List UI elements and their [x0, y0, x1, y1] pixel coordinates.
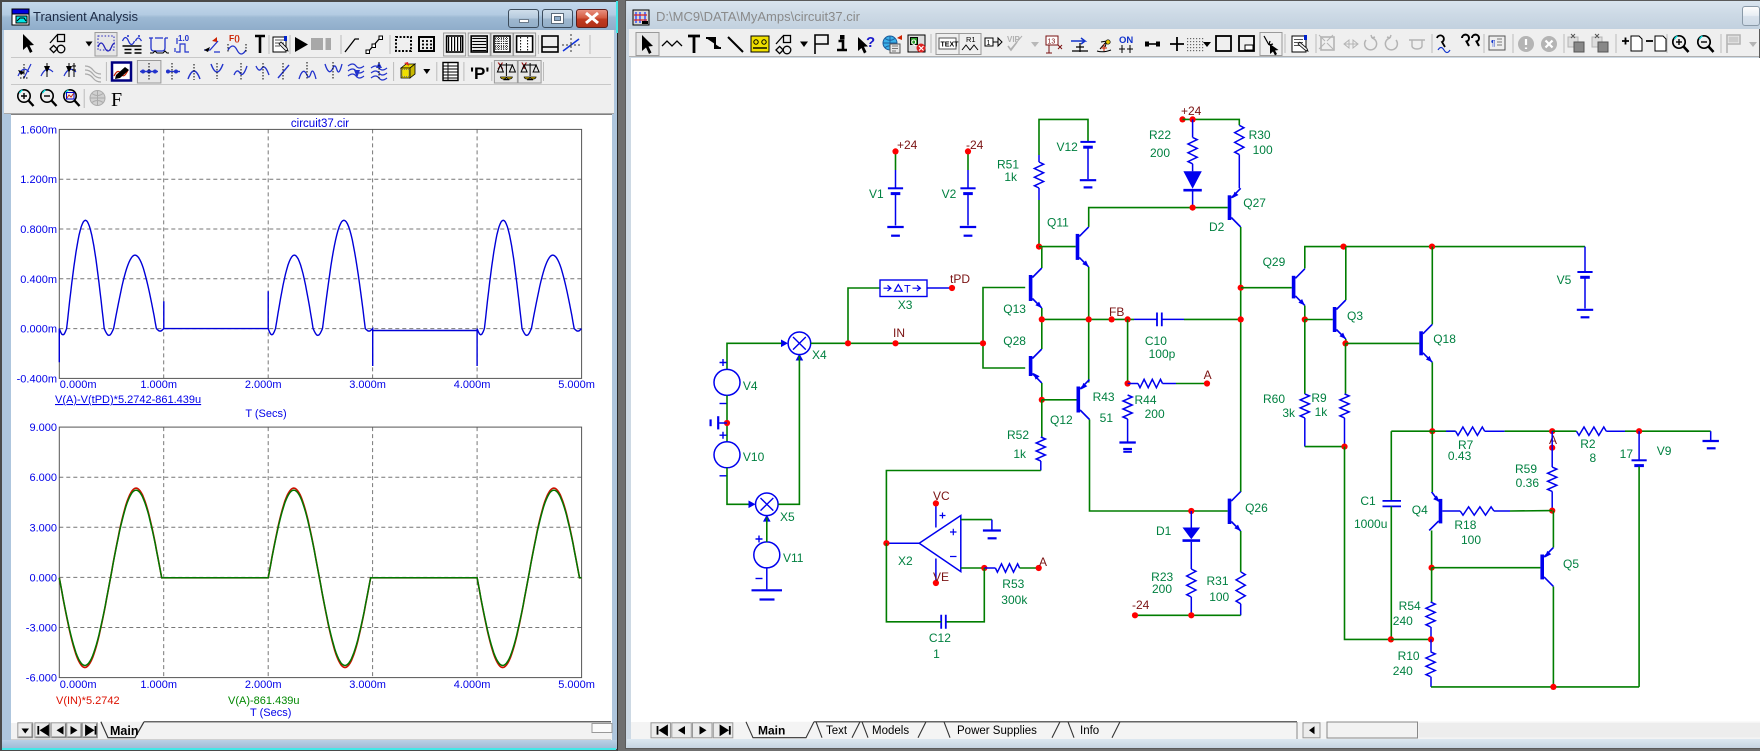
- node D1 anode: [1188, 508, 1194, 514]
- node X2 output: [883, 540, 889, 546]
- diode D2: [1183, 164, 1224, 234]
- node Q3 base junction: [1302, 316, 1308, 322]
- wire Q5 base: [1432, 567, 1541, 569]
- wire C12 feedback right: [946, 568, 984, 622]
- left title bar: [2, 2, 617, 30]
- node Q18 emitter junction: [1429, 428, 1435, 434]
- capacitor C10: [1134, 313, 1184, 362]
- transistor Q26: [1228, 492, 1268, 531]
- wire Q13/Q28 FB link: [1041, 308, 1043, 349]
- ground (V5): [1577, 310, 1593, 318]
- capacitor C1: [1354, 431, 1401, 639]
- node FB text anchor: [1109, 305, 1125, 323]
- wire Q11 emitter to FB: [1088, 267, 1090, 383]
- resistor R43: [1093, 390, 1133, 442]
- wire R60 bottom: [1305, 446, 1343, 448]
- wire Q3 emitter: [1345, 339, 1347, 343]
- wire R7 to A: [1505, 430, 1553, 432]
- node X2 minus: [981, 565, 987, 571]
- multiplier X5: [749, 493, 796, 524]
- node VC: [933, 489, 950, 507]
- wire Q4 collector: [1431, 531, 1433, 568]
- resistor R51: [997, 155, 1044, 200]
- resistor R10: [1393, 639, 1435, 687]
- wire X2 plus input: [961, 519, 992, 521]
- wire R2 to V9: [1625, 430, 1711, 432]
- wire R51-Q11: [1038, 200, 1040, 247]
- node -24: [1132, 598, 1150, 618]
- resistor R9: [1311, 343, 1349, 446]
- wire R18 to R59: [1510, 510, 1552, 512]
- transistor Q13: [1003, 268, 1042, 316]
- transistor Q28: [1003, 334, 1042, 383]
- ground (X2 plus): [983, 520, 1001, 539]
- wire X4 to X3: [848, 288, 880, 343]
- wire Q27 collector rail: [1240, 227, 1242, 492]
- left client area: [11, 114, 612, 724]
- node FB rail junction: [1238, 316, 1244, 322]
- node R54/R10 junction: [1428, 636, 1434, 642]
- wire Q11 collector to D2 rail: [1089, 208, 1228, 227]
- resistor R30: [1235, 125, 1273, 188]
- right bottom tab bar: [631, 722, 1760, 739]
- ground (V11): [752, 590, 783, 599]
- wire Q26 emitter: [1240, 531, 1242, 572]
- transistor Q4: [1412, 492, 1442, 531]
- resistor R60: [1263, 320, 1309, 447]
- wire output rail left: [1391, 430, 1432, 432]
- wire V11 to ground: [766, 568, 768, 589]
- svg-text:Power Supplies: Power Supplies: [957, 725, 1037, 737]
- transistor Q11: [1047, 216, 1089, 267]
- node Q18 base junction: [1342, 340, 1348, 346]
- node IN: [892, 326, 905, 346]
- battery V9: [1620, 431, 1672, 465]
- op-amp X2: [886, 503, 960, 583]
- node C1 bottom: [1388, 636, 1394, 642]
- wire Q3 collector: [1345, 247, 1347, 300]
- node A (output): [1549, 428, 1557, 447]
- wire Q18 collector: [1431, 247, 1433, 325]
- node top rail Q3: [1340, 244, 1346, 250]
- capacitor C12: [886, 543, 951, 661]
- transistor Q18: [1419, 324, 1456, 362]
- node FB junction 2: [1086, 316, 1092, 322]
- resistor R18: [1442, 507, 1510, 547]
- resistor R44: [1128, 379, 1176, 421]
- ground (V1): [887, 227, 903, 236]
- left bottom tab bar: [11, 723, 612, 740]
- sine source V11: [754, 536, 804, 579]
- transistor Q27: [1228, 188, 1267, 227]
- wire bottom rail: [1431, 686, 1639, 688]
- wire Q4 emitter: [1431, 431, 1433, 492]
- multiplier X4: [781, 332, 827, 362]
- node FB junction 1: [1039, 316, 1045, 322]
- wire FB: [1042, 318, 1134, 320]
- resistor R23: [1151, 569, 1196, 615]
- wire Q12 collector down: [1090, 420, 1228, 512]
- wire C10 to rail: [1184, 318, 1239, 320]
- wire Q3 base: [1305, 319, 1333, 321]
- svg-text:Main: Main: [758, 724, 785, 738]
- wire V11 to X5: [766, 518, 768, 542]
- node VE: [933, 570, 949, 586]
- resistor R31: [1207, 572, 1246, 615]
- wire R9 to bottom rail: [1345, 447, 1391, 640]
- sine source V4: [714, 359, 758, 404]
- node -24 (V2): [965, 138, 984, 154]
- svg-text:Models: Models: [872, 725, 909, 737]
- wire V9 to bottom rail: [1638, 467, 1640, 687]
- resistor R22: [1149, 119, 1197, 163]
- ground (R43): [1119, 443, 1135, 452]
- wire Q5 collector: [1552, 587, 1554, 687]
- sine source V10: [714, 432, 765, 476]
- resistor R7: [1432, 427, 1504, 463]
- resistor R53: [984, 564, 1036, 607]
- left caption buttons: [508, 9, 539, 28]
- wire FB to R43: [1127, 319, 1129, 383]
- ground (V12): [1080, 180, 1096, 187]
- wire top rail: [1305, 247, 1585, 269]
- transistor Q5: [1540, 548, 1579, 587]
- node R59 bottom: [1549, 508, 1555, 514]
- delay block X3: [880, 280, 927, 312]
- svg-text:Text: Text: [826, 725, 848, 737]
- wire Q13/Q28 base: [983, 288, 1025, 369]
- battery V2: [942, 151, 976, 225]
- node tPD: [949, 272, 970, 291]
- node Q4 collector junction: [1429, 565, 1435, 571]
- wire V4 to X4: [727, 343, 782, 369]
- node R60/R9 junction: [1341, 444, 1347, 450]
- node Q28 emitter: [1039, 397, 1045, 403]
- node Q13 collector: [1036, 244, 1042, 250]
- node FB corner: [1125, 316, 1131, 322]
- wire X2 minus input: [961, 567, 985, 569]
- right toolbar: [629, 29, 1759, 57]
- transistor Q12: [1050, 380, 1090, 428]
- wire R51-V12 top: [1039, 119, 1088, 155]
- wire IN: [848, 342, 983, 344]
- resistor R59: [1515, 431, 1557, 510]
- resistor R54: [1393, 568, 1435, 640]
- wire R44 to A: [1176, 383, 1207, 385]
- wire -24 rail: [1135, 614, 1241, 616]
- svg-text:Info: Info: [1080, 725, 1099, 737]
- node X4 output junction: [845, 340, 851, 346]
- battery V5: [1557, 247, 1593, 309]
- left toolbar area: [4, 30, 614, 114]
- node Q29 base junction: [1238, 285, 1244, 291]
- wire Q18 emitter: [1431, 362, 1433, 431]
- node R43/R44 junction: [1125, 380, 1131, 386]
- diode D1: [1156, 511, 1200, 569]
- right client: [631, 58, 1760, 722]
- node V4/V10 junction: [724, 420, 730, 426]
- wire X3 output: [927, 287, 952, 289]
- node R23 bottom: [1188, 612, 1194, 618]
- wire Q12 base: [1042, 399, 1077, 401]
- node +24 rail: [1179, 104, 1201, 123]
- node IN at base: [980, 340, 986, 346]
- ground (left stub): [711, 416, 727, 429]
- wire Q29 emitter: [1304, 306, 1306, 320]
- node Q5 collector junction: [1550, 684, 1556, 690]
- wire Q18 base: [1346, 342, 1420, 344]
- node A (R53): [1036, 555, 1047, 571]
- ground (V2): [960, 227, 976, 236]
- node V9 top: [1636, 428, 1642, 434]
- node R22 top: [1190, 116, 1196, 122]
- transistor Q29: [1263, 255, 1305, 305]
- wire Q5 emitter: [1552, 511, 1554, 548]
- wire +24 rail: [1183, 119, 1240, 125]
- wire X5 to X4: [778, 356, 799, 504]
- node R59 top: [1549, 445, 1555, 451]
- wire Q29 base: [1241, 287, 1292, 289]
- wire R52 to X2: [886, 471, 1040, 544]
- node D2 cathode: [1190, 205, 1196, 211]
- wire C1 to R54: [1391, 638, 1432, 640]
- resistor R52: [1007, 400, 1045, 471]
- wire Q11 base: [1039, 246, 1076, 248]
- node +24 (V1): [892, 138, 917, 154]
- transistor Q3: [1333, 300, 1364, 339]
- wire V4-V10: [726, 395, 728, 441]
- node top rail Q18: [1429, 244, 1435, 250]
- partial caption button at right edge: [1742, 6, 1760, 26]
- battery V12: [1057, 140, 1096, 179]
- battery V1: [869, 151, 903, 225]
- wire Q13 collector: [1041, 247, 1043, 268]
- ground (output): [1703, 431, 1719, 448]
- wire V10 to X5: [727, 468, 749, 505]
- node A (R44): [1204, 368, 1212, 387]
- wire Q28 emitter: [1041, 383, 1043, 400]
- resistor R2: [1552, 427, 1625, 465]
- wire X4 output: [811, 342, 848, 344]
